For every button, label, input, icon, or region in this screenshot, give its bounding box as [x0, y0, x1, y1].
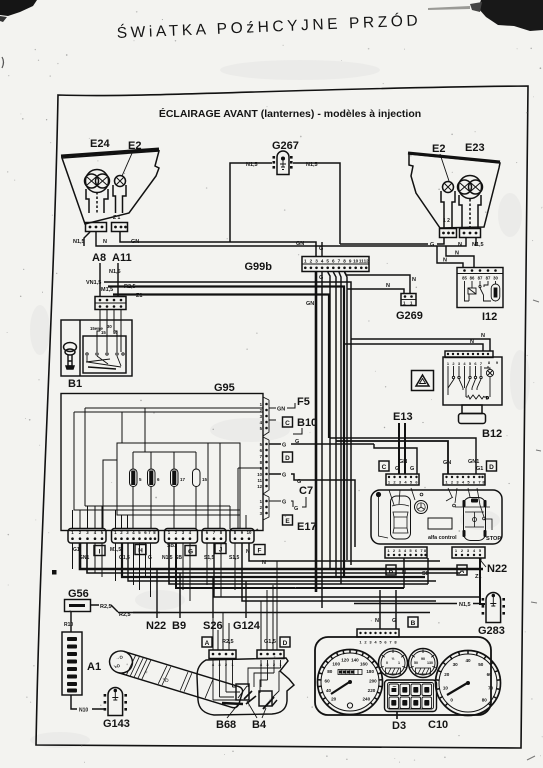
main frame border — [36, 86, 528, 748]
B1 wires into switch — [97, 310, 121, 352]
svg-text:120: 120 — [341, 658, 349, 663]
svg-text:9: 9 — [349, 259, 352, 264]
svg-text:VN1,5: VN1,5 — [86, 280, 101, 286]
connector B1 top — [95, 297, 126, 310]
svg-text:GN: GN — [443, 460, 451, 466]
ignition switch B1 — [61, 320, 132, 376]
pin numbers A stalk — [212, 662, 235, 667]
svg-text:10: 10 — [443, 686, 449, 691]
fuel gauge hatch box — [386, 668, 401, 674]
B12 internals — [448, 366, 494, 400]
svg-text:40: 40 — [465, 658, 471, 663]
lamp E2-left pedestal — [113, 185, 126, 213]
I12 internal fuse 30 — [495, 281, 497, 284]
alfa mount dot — [376, 492, 381, 497]
headlamp E24/E2 body — [62, 151, 159, 224]
svg-text:C7: C7 — [299, 485, 313, 497]
boxed label H — [135, 545, 146, 555]
G95 internal wires — [73, 408, 263, 529]
wire GN run lamps to G99b — [120, 232, 316, 256]
svg-text:100: 100 — [332, 662, 340, 667]
svg-text:1 2: 1 2 — [443, 218, 450, 224]
lamp E23 twin bulbs — [459, 176, 482, 199]
wire N10 A1 to G143 — [71, 695, 104, 709]
bus line 4 — [128, 543, 436, 581]
svg-text:D: D — [285, 455, 290, 462]
wire N to I12 pin85 — [437, 246, 463, 268]
bus line 1 thick — [80, 543, 483, 569]
wire G drop to cluster — [395, 590, 397, 629]
svg-text:M1,5: M1,5 — [101, 287, 113, 293]
svg-text:15: 15 — [202, 477, 208, 482]
svg-text:E13: E13 — [393, 411, 413, 423]
bus line 2 thick — [87, 543, 460, 573]
leader E2 to bulb — [440, 154, 449, 181]
B68 relay box — [236, 684, 249, 700]
svg-text:11: 11 — [257, 478, 262, 483]
svg-text:12: 12 — [364, 259, 370, 264]
boxed label F — [254, 545, 265, 555]
B4 contact bar — [263, 697, 274, 709]
wire N from F connector — [249, 543, 440, 561]
wire G pin4 down — [321, 272, 323, 608]
fuse 6 — [148, 469, 156, 487]
connector block lamp L1 — [86, 223, 107, 232]
svg-text:10: 10 — [257, 472, 262, 477]
wires to alfa C/D strips — [330, 438, 476, 474]
leaders B4 — [247, 701, 266, 718]
svg-text:N: N — [103, 239, 107, 245]
svg-text:R2,5: R2,5 — [100, 604, 112, 610]
svg-text:86: 86 — [470, 276, 475, 281]
boxed label D — [283, 452, 293, 462]
boxed label A stalk — [202, 637, 212, 647]
odometer — [338, 670, 362, 675]
svg-text:87: 87 — [486, 276, 491, 281]
fuse 15 — [193, 469, 201, 487]
svg-text:12: 12 — [257, 484, 262, 489]
lamp E2-left bulb — [115, 176, 126, 187]
svg-text:3: 3 — [315, 259, 318, 264]
speedo needle — [331, 681, 351, 694]
wire bundle to B12 n1 — [351, 339, 490, 351]
svg-text:E: E — [285, 518, 290, 525]
connector A strip alfa — [452, 547, 485, 558]
wire R2,5 drop to A conn — [213, 613, 229, 651]
svg-text:130: 130 — [427, 661, 433, 665]
svg-text:G269: G269 — [396, 310, 423, 322]
svg-text:N1,5: N1,5 — [109, 269, 121, 275]
svg-text:E2: E2 — [128, 140, 141, 152]
wire bundle to B12 n2 — [344, 344, 483, 351]
svg-text:N: N — [470, 339, 474, 345]
connector cluster — [357, 629, 399, 645]
svg-text:G267: G267 — [272, 140, 299, 152]
svg-text:B1: B1 — [68, 378, 82, 390]
lamp E23 pedestal — [459, 195, 481, 229]
svg-text:90: 90 — [421, 657, 425, 661]
fuel gauge — [379, 649, 408, 678]
svg-text:D: D — [283, 640, 288, 647]
wire N1,5 stub — [354, 603, 479, 605]
cluster body — [315, 637, 491, 715]
svg-text:0: 0 — [450, 697, 453, 702]
svg-text:D3: D3 — [392, 720, 406, 732]
svg-text:GN: GN — [296, 241, 304, 247]
tacho numbers — [443, 658, 494, 702]
svg-text:5: 5 — [326, 259, 329, 264]
svg-text:15: 15 — [101, 330, 106, 335]
svg-text:B12: B12 — [482, 428, 502, 440]
I12 internal coil — [465, 281, 473, 301]
wire N from B strip down — [403, 558, 405, 588]
svg-text:N: N — [443, 258, 447, 264]
connector B strip alfa — [385, 547, 427, 558]
speedometer — [318, 650, 383, 715]
G95 right column B pins 5-12 — [265, 443, 268, 488]
bus line 5 — [169, 543, 428, 584]
warning cells row1 — [389, 684, 432, 696]
svg-text:Z 1: Z 1 — [113, 215, 120, 221]
G95 inner sub-box — [117, 443, 240, 515]
svg-text:STOP: STOP — [486, 536, 501, 542]
leader N22 — [481, 558, 486, 567]
stalk lever — [107, 648, 244, 709]
leader D3 — [396, 711, 398, 719]
connector J — [202, 529, 226, 544]
fuse strip A1 — [62, 632, 82, 695]
switch housing B68/B4 — [197, 658, 294, 715]
wire GN to F5 — [269, 403, 295, 408]
connector A stalk — [209, 650, 236, 659]
G95 inner feeder top — [74, 408, 263, 510]
B12 pedestal — [459, 405, 486, 424]
svg-text:I: I — [99, 548, 101, 555]
connector block lamp R2 — [460, 229, 481, 238]
svg-text:N22: N22 — [487, 563, 507, 575]
wire bundle v1 — [328, 272, 330, 570]
connector C strip alfa — [386, 474, 419, 485]
svg-text:½: ½ — [392, 657, 395, 661]
svg-text:N: N — [386, 283, 390, 289]
svg-text:D: D — [489, 464, 494, 471]
wire N bundle to G269 lower — [347, 289, 404, 293]
warning cells row2 — [389, 697, 432, 709]
pin numbers D stalk — [260, 662, 283, 667]
svg-text:F: F — [258, 547, 262, 554]
wire N drop to cluster — [379, 590, 381, 629]
wire R2,5 run right — [118, 612, 430, 614]
G95 right column A pins 1-5 — [265, 403, 268, 430]
svg-text:85: 85 — [462, 276, 467, 281]
wire N1,5 left-lamp stub — [84, 232, 90, 246]
svg-text:G: G — [294, 506, 298, 512]
svg-text:G124: G124 — [233, 620, 261, 632]
bus line 7 — [214, 543, 480, 597]
wire N bundle to G269 upper — [345, 272, 411, 293]
alfa centre rect — [428, 518, 452, 529]
fuse link G56 — [65, 600, 91, 612]
wire G pin1 to C7 — [269, 497, 306, 507]
svg-text:G: G — [282, 443, 286, 449]
svg-text:G: G — [430, 242, 434, 248]
svg-text:H: H — [138, 547, 143, 554]
B68/B4 internal wires — [213, 660, 281, 700]
wire N to I12 pin86 — [446, 246, 474, 268]
svg-text:G99b: G99b — [244, 261, 272, 273]
B1 contacts — [86, 353, 124, 369]
svg-text:87: 87 — [478, 276, 483, 281]
svg-text:8: 8 — [343, 259, 346, 264]
boxed label I — [94, 546, 105, 556]
wire VN1,5 long run — [104, 282, 351, 565]
wire G267 left N1,5 — [230, 163, 272, 242]
connector D stalk — [257, 650, 284, 659]
svg-text:7: 7 — [338, 259, 341, 264]
svg-text:7: 7 — [480, 361, 482, 366]
svg-text:R10: R10 — [64, 622, 73, 628]
svg-text:2: 2 — [310, 259, 313, 264]
svg-text:N10: N10 — [79, 708, 88, 714]
alfa internal wires — [379, 488, 493, 538]
svg-text:G: G — [410, 466, 414, 472]
B10 bracket — [269, 420, 302, 434]
svg-text:S1,5: S1,5 — [229, 555, 240, 561]
svg-text:1: 1 — [398, 661, 400, 665]
svg-text:G95: G95 — [214, 382, 235, 394]
svg-text:G143: G143 — [103, 718, 130, 730]
connector G99b — [302, 257, 369, 272]
speedo numbers — [325, 658, 378, 702]
svg-text:50: 50 — [414, 661, 418, 665]
svg-text:80: 80 — [482, 697, 488, 702]
svg-text:I12: I12 — [482, 311, 497, 323]
tachometer — [436, 651, 501, 716]
leader B68 — [227, 702, 240, 718]
bus line 8 — [242, 543, 436, 601]
svg-text:17: 17 — [180, 477, 186, 482]
connector pin drops G95 — [73, 543, 236, 601]
wire G267 right N1,5 — [293, 163, 340, 244]
svg-text:6: 6 — [332, 259, 335, 264]
ink dot — [52, 570, 57, 575]
svg-text:D: D — [486, 395, 489, 400]
wire Z1 to G283 — [480, 558, 485, 604]
svg-text:B4: B4 — [252, 719, 267, 731]
drop to B9 — [179, 573, 181, 618]
svg-text:B: B — [389, 568, 394, 575]
svg-text:G56: G56 — [68, 588, 89, 600]
earth G283 — [486, 593, 501, 623]
svg-text:alfa control: alfa control — [428, 535, 457, 541]
leader E2 to bulb — [122, 151, 133, 176]
svg-text:140: 140 — [351, 658, 359, 663]
boxed label B cluster — [408, 617, 418, 627]
fuse 5 — [130, 469, 138, 487]
svg-text:B9: B9 — [172, 620, 186, 632]
temp gauge — [409, 649, 438, 678]
svg-text:N1,5: N1,5 — [306, 162, 318, 168]
svg-text:40: 40 — [326, 688, 332, 693]
connector G — [165, 529, 198, 544]
svg-text:ÉCLAIRAGE AVANT (lanternes) -: ÉCLAIRAGE AVANT (lanternes) - modèles à … — [159, 107, 421, 120]
connector I — [68, 529, 106, 544]
svg-text:20: 20 — [331, 696, 337, 701]
boxed label J — [215, 544, 226, 554]
svg-text:N1,5: N1,5 — [472, 242, 484, 248]
svg-text:10: 10 — [353, 259, 359, 264]
boxed label B alfa — [386, 565, 396, 575]
svg-text:0: 0 — [386, 661, 388, 665]
svg-text:180: 180 — [366, 669, 374, 674]
alfa right car icon — [464, 498, 486, 541]
svg-text:G283: G283 — [478, 625, 505, 637]
svg-text:160: 160 — [360, 662, 368, 667]
svg-text:B68: B68 — [216, 719, 236, 731]
svg-text:30: 30 — [107, 324, 112, 329]
svg-text:G1,5: G1,5 — [264, 639, 276, 645]
wire R2,5 from G56 — [91, 605, 160, 613]
tacho ticks — [436, 651, 500, 706]
alfa control body — [371, 490, 502, 544]
connector D strip alfa — [443, 474, 485, 485]
svg-text:G: G — [282, 500, 286, 506]
fusebox G95 body — [61, 394, 263, 531]
B1 key symbol — [64, 343, 77, 370]
wire A11 down — [117, 263, 119, 296]
svg-text:N1,5: N1,5 — [162, 555, 173, 561]
lamp E2-right pedestal — [441, 191, 455, 229]
svg-text:G: G — [392, 618, 396, 624]
svg-text:A1: A1 — [87, 661, 101, 673]
boxed label D alfa — [487, 461, 497, 471]
wire N1,5 right-lamp stub — [475, 237, 477, 246]
warning lamp panel D3 — [385, 680, 437, 712]
svg-text:A: A — [205, 640, 210, 647]
svg-text:R2,5: R2,5 — [222, 639, 234, 645]
speedo ticks — [318, 650, 382, 705]
svg-text:N: N — [412, 277, 416, 283]
svg-text:G: G — [295, 439, 299, 445]
wire bundle v4 — [345, 272, 348, 560]
B4 relay box — [259, 691, 272, 706]
wire R10 G56 to A1 — [70, 612, 72, 633]
wire N left-lamp long run — [96, 232, 466, 246]
lamp E2-right bulb — [443, 182, 454, 193]
I12 internal switch — [479, 281, 481, 285]
svg-text:GN1: GN1 — [468, 459, 479, 465]
boxed label C alfa — [379, 461, 389, 471]
drop to S26 — [212, 577, 214, 618]
tacho needle — [447, 682, 469, 695]
svg-text:10: 10 — [247, 530, 252, 535]
wire G pin5 right long — [269, 443, 374, 445]
svg-text:1: 1 — [304, 259, 307, 264]
svg-text:N: N — [481, 333, 485, 339]
temp gauge hatch box — [416, 668, 431, 674]
scan corner mark top-left — [0, 0, 37, 16]
G267 sensor — [277, 151, 289, 175]
wire R2,5 long run thick — [108, 287, 344, 578]
B68 contact bar — [222, 703, 243, 704]
connector block lamp R1 — [440, 229, 457, 238]
svg-text:70: 70 — [488, 686, 494, 691]
wire bundle v2 — [333, 272, 336, 577]
lamp E24 twin bulbs — [86, 170, 109, 193]
boxed label D stalk — [280, 637, 290, 647]
boxed label G — [185, 546, 196, 556]
svg-text:E23: E23 — [465, 142, 485, 154]
relay I12 — [457, 268, 503, 308]
svg-text:N22: N22 — [146, 620, 166, 632]
boxed label A alfa — [457, 565, 467, 575]
svg-text:N1,5: N1,5 — [246, 162, 258, 168]
right margin dashes — [527, 300, 541, 760]
svg-text:GN: GN — [277, 407, 285, 413]
wire E13 v1 — [398, 423, 400, 474]
svg-text:30: 30 — [453, 662, 459, 667]
drop to N22 — [156, 569, 158, 618]
lamp E24 pedestal — [86, 189, 108, 213]
boxed label E — [283, 515, 293, 525]
wire bundle v3 — [339, 272, 341, 584]
svg-text:C10: C10 — [428, 719, 448, 731]
svg-text:G1: G1 — [476, 466, 483, 472]
wire A8 down — [99, 263, 101, 296]
connector G269 — [401, 294, 416, 306]
wire E13 v2 — [404, 423, 406, 474]
wire S8 down — [427, 558, 429, 584]
svg-text:E2: E2 — [432, 143, 445, 155]
svg-text:30: 30 — [493, 276, 498, 281]
svg-text:G: G — [282, 473, 286, 479]
alfa steering wheel icon — [415, 501, 428, 514]
svg-text:S1,5: S1,5 — [204, 555, 215, 561]
svg-text:N: N — [458, 242, 462, 248]
B1 contact labels — [90, 324, 118, 335]
connector H — [112, 529, 159, 544]
svg-text:C: C — [285, 420, 290, 427]
svg-text:60: 60 — [325, 678, 331, 683]
wire G pin11 right long — [269, 474, 355, 547]
hazard symbol box — [412, 371, 434, 391]
wire Z1 long run thick — [113, 295, 329, 439]
svg-text:4: 4 — [321, 259, 324, 264]
left margin mark — [2, 57, 4, 68]
switch B12 — [443, 351, 502, 405]
svg-text:N: N — [455, 251, 459, 257]
svg-text:C: C — [382, 464, 387, 471]
svg-text:B: B — [411, 620, 416, 627]
connector F — [230, 529, 254, 544]
svg-text:B10: B10 — [297, 417, 317, 429]
svg-text:A11: A11 — [112, 252, 132, 264]
svg-text:80: 80 — [327, 669, 333, 674]
svg-text:50: 50 — [478, 662, 484, 667]
svg-text:F5: F5 — [297, 396, 310, 408]
bus line 6 — [176, 543, 404, 588]
svg-text:240: 240 — [362, 696, 370, 701]
svg-text:GN: GN — [306, 301, 314, 307]
svg-text:220: 220 — [368, 688, 376, 693]
headlamp E2/E23 body — [409, 154, 500, 228]
svg-text:A8: A8 — [92, 252, 106, 264]
scan corner mark top-right — [478, 0, 543, 31]
svg-text:G: G — [319, 275, 323, 281]
svg-text:E17: E17 — [297, 521, 317, 533]
connector block lamp L2 — [112, 223, 128, 232]
G95 right column C pins 1-3 — [265, 500, 268, 515]
